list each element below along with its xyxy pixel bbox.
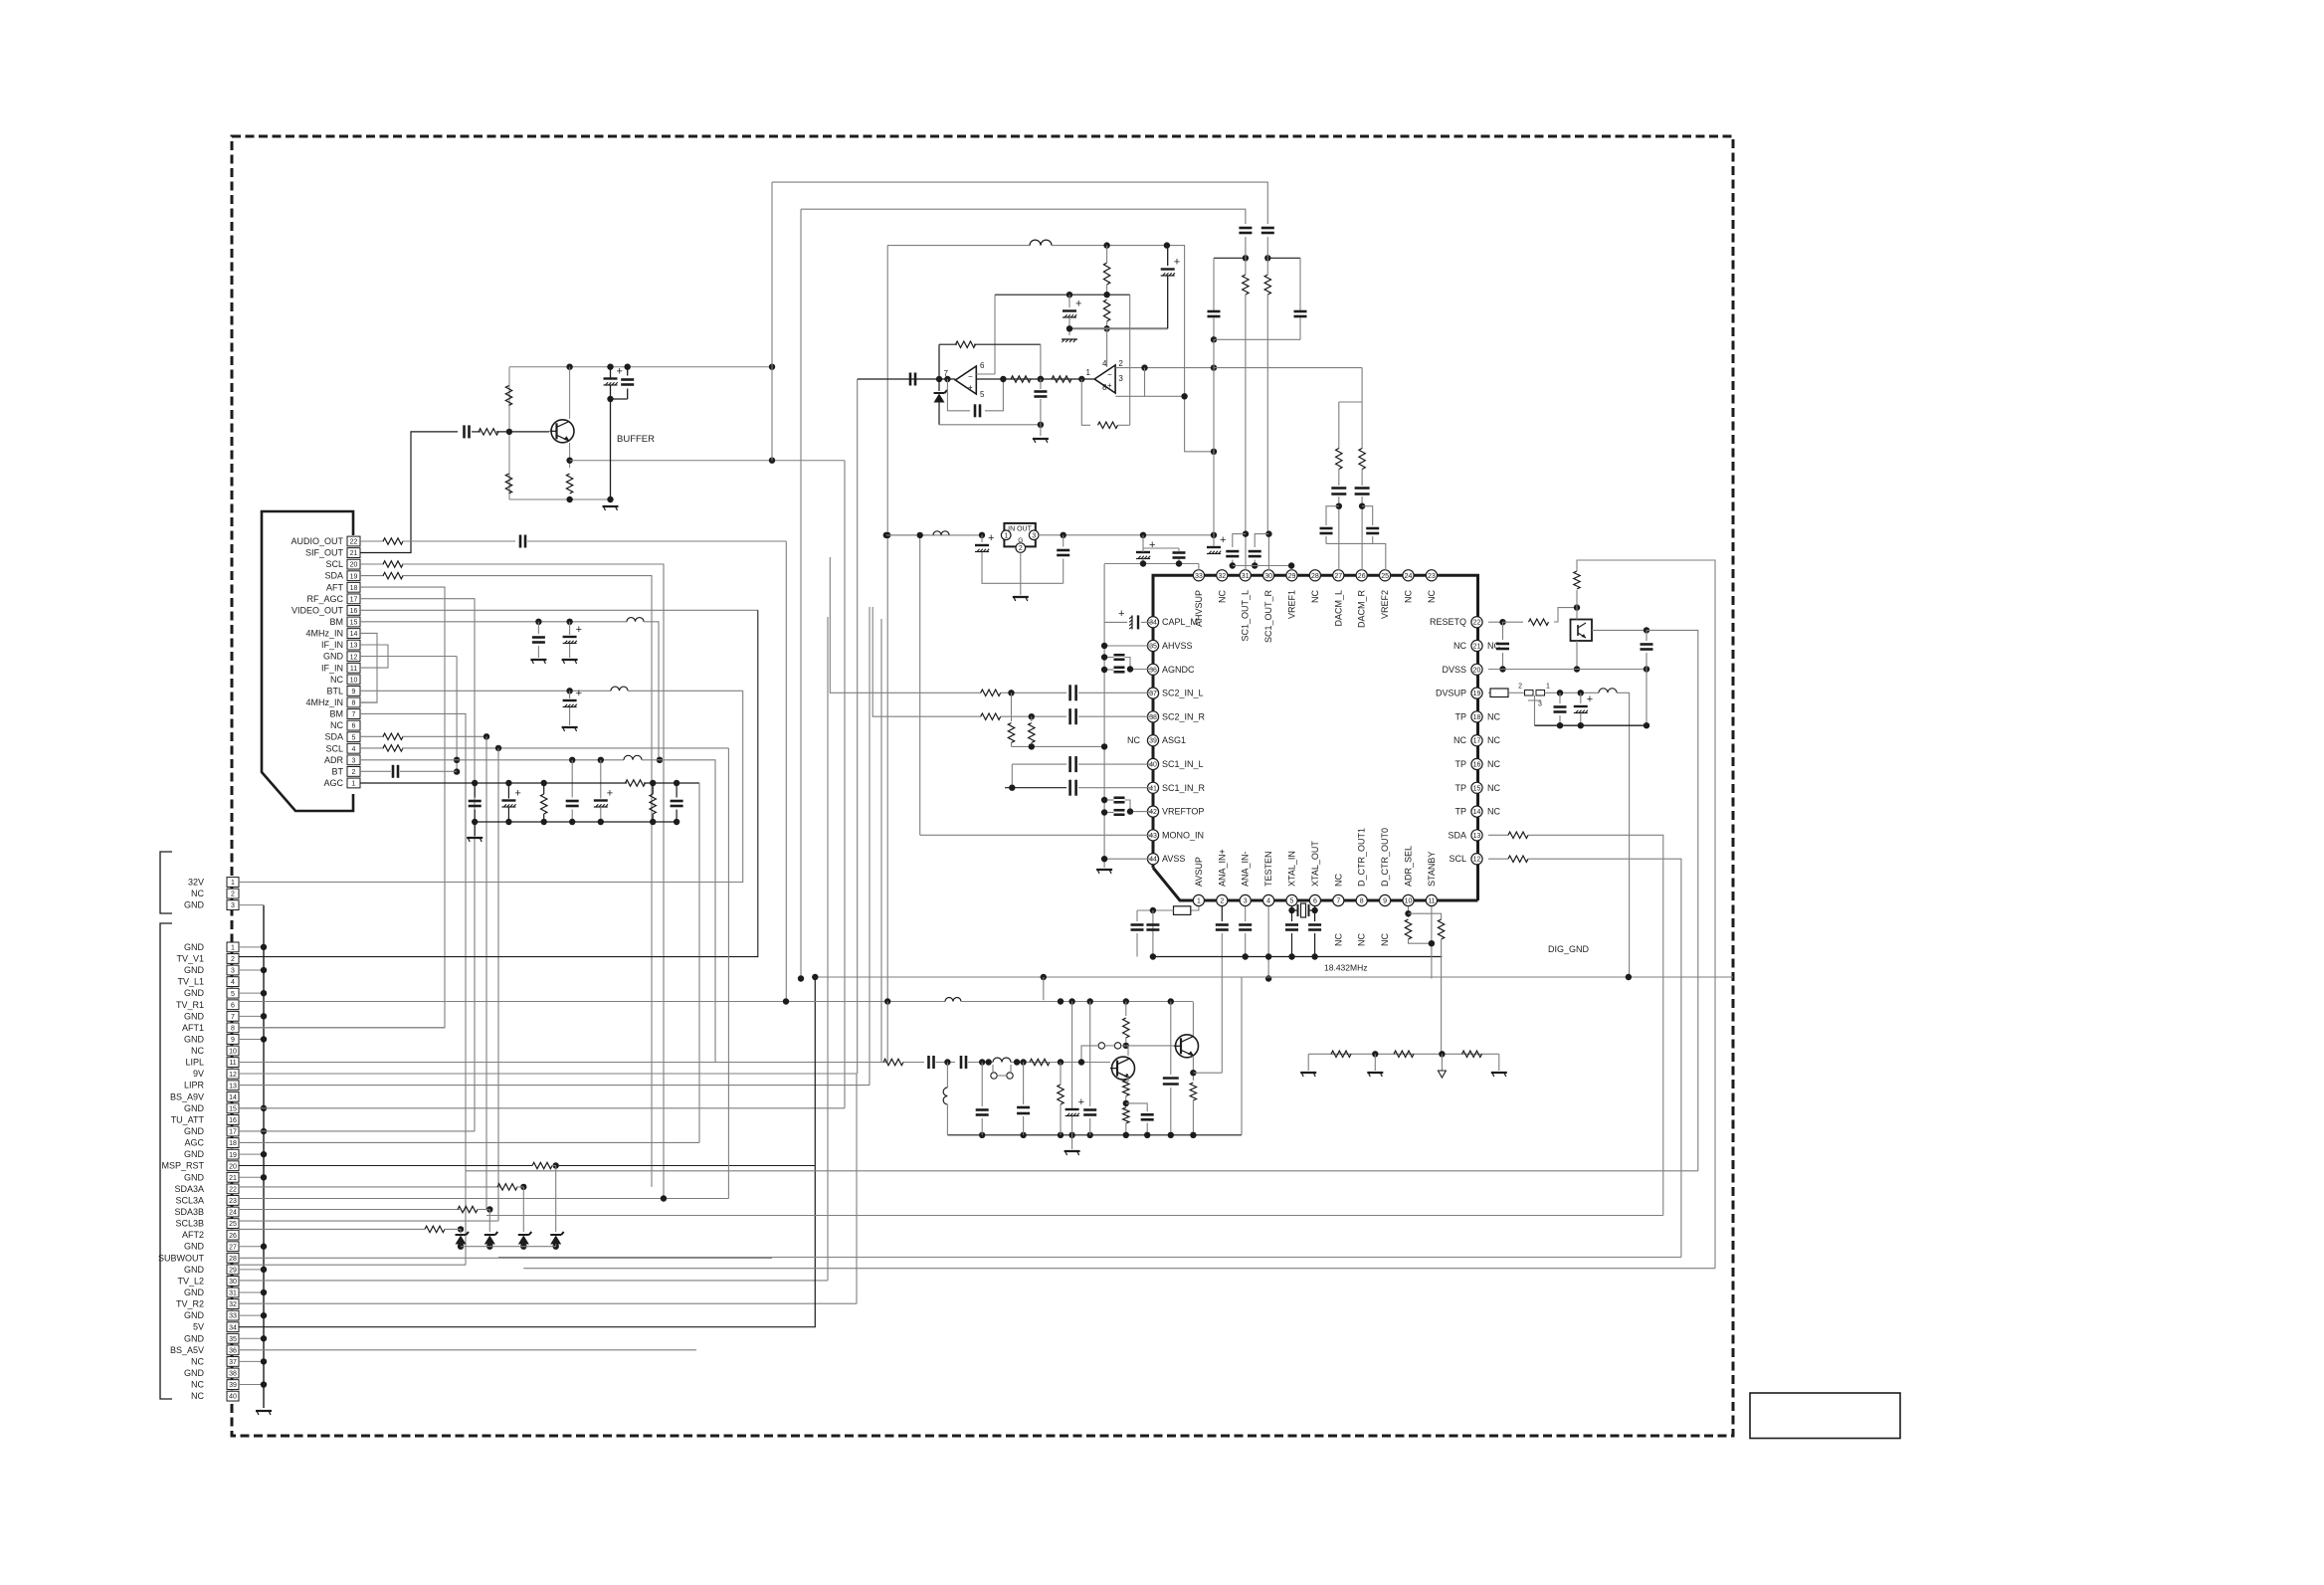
svg-text:4MHz_IN: 4MHz_IN xyxy=(305,629,343,639)
svg-text:GND: GND xyxy=(184,965,205,975)
svg-text:36: 36 xyxy=(1149,667,1157,674)
svg-text:AVSUP: AVSUP xyxy=(1194,857,1204,887)
svg-text:NC: NC xyxy=(191,1046,204,1056)
svg-text:9: 9 xyxy=(231,1037,235,1044)
svg-text:4: 4 xyxy=(231,979,235,986)
svg-text:GND: GND xyxy=(184,1149,205,1159)
svg-text:SC1_OUT_L: SC1_OUT_L xyxy=(1241,590,1251,642)
svg-text:GND: GND xyxy=(184,900,205,910)
svg-text:30: 30 xyxy=(1264,573,1272,580)
svg-text:+: + xyxy=(1075,298,1081,310)
svg-text:15: 15 xyxy=(350,620,358,627)
svg-text:3: 3 xyxy=(1032,532,1036,539)
svg-text:TU_ATT: TU_ATT xyxy=(171,1114,205,1124)
svg-text:43: 43 xyxy=(1149,833,1157,840)
svg-text:AFT: AFT xyxy=(326,582,344,592)
svg-text:SIF_OUT: SIF_OUT xyxy=(305,548,344,558)
svg-text:42: 42 xyxy=(1149,809,1157,816)
svg-text:1: 1 xyxy=(231,945,235,952)
svg-text:VIDEO_OUT: VIDEO_OUT xyxy=(291,605,344,615)
svg-text:5: 5 xyxy=(980,390,985,399)
svg-text:3: 3 xyxy=(231,902,235,909)
svg-text:SCL: SCL xyxy=(325,559,343,569)
svg-text:AGNDC: AGNDC xyxy=(1162,665,1195,675)
svg-text:7: 7 xyxy=(352,711,356,718)
svg-text:15: 15 xyxy=(229,1105,237,1112)
svg-text:28: 28 xyxy=(1311,573,1319,580)
svg-text:32V: 32V xyxy=(188,878,204,888)
svg-text:GND: GND xyxy=(184,1265,205,1275)
svg-text:18.432MHz: 18.432MHz xyxy=(1324,963,1367,973)
svg-text:25: 25 xyxy=(229,1221,237,1228)
svg-text:TP: TP xyxy=(1454,807,1466,817)
svg-text:4: 4 xyxy=(1102,359,1107,368)
svg-text:2: 2 xyxy=(352,769,356,776)
svg-text:10: 10 xyxy=(229,1049,237,1056)
svg-text:MSP_RST: MSP_RST xyxy=(161,1161,204,1171)
svg-text:14: 14 xyxy=(1473,809,1481,816)
svg-text:7: 7 xyxy=(231,1014,235,1021)
svg-text:35: 35 xyxy=(1149,644,1157,651)
svg-text:SCL3B: SCL3B xyxy=(175,1219,204,1229)
svg-text:NC: NC xyxy=(1453,641,1466,651)
svg-text:2: 2 xyxy=(231,956,235,963)
svg-text:AFT2: AFT2 xyxy=(182,1230,204,1240)
svg-text:SDA: SDA xyxy=(1448,830,1466,840)
svg-text:11: 11 xyxy=(350,666,357,673)
svg-text:NC: NC xyxy=(191,1356,204,1366)
svg-text:+: + xyxy=(514,788,520,800)
svg-text:40: 40 xyxy=(1149,762,1157,769)
svg-text:16: 16 xyxy=(229,1117,237,1124)
svg-text:TP: TP xyxy=(1454,783,1466,793)
svg-text:3: 3 xyxy=(352,757,356,764)
svg-text:GND: GND xyxy=(184,1333,205,1343)
svg-text:9: 9 xyxy=(352,689,356,695)
svg-text:NC: NC xyxy=(1357,933,1367,946)
svg-text:SCL: SCL xyxy=(325,743,343,753)
svg-text:NC: NC xyxy=(1487,759,1500,769)
svg-text:LIPL: LIPL xyxy=(185,1058,204,1068)
svg-text:GND: GND xyxy=(184,1288,205,1297)
svg-text:24: 24 xyxy=(229,1210,237,1217)
svg-text:3: 3 xyxy=(1538,701,1542,708)
svg-text:SC2_IN_L: SC2_IN_L xyxy=(1162,689,1204,698)
svg-text:+: + xyxy=(1220,534,1226,546)
svg-text:1: 1 xyxy=(1546,684,1550,691)
svg-text:SC1_OUT_R: SC1_OUT_R xyxy=(1263,589,1273,643)
svg-text:5: 5 xyxy=(352,734,356,741)
svg-text:22: 22 xyxy=(229,1186,237,1193)
svg-text:BM: BM xyxy=(330,709,344,719)
svg-text:SC1_IN_L: SC1_IN_L xyxy=(1162,759,1204,769)
svg-text:44: 44 xyxy=(1149,857,1157,864)
svg-text:DVSS: DVSS xyxy=(1442,665,1466,675)
svg-text:5: 5 xyxy=(1290,898,1294,905)
svg-text:39: 39 xyxy=(1149,738,1157,745)
svg-text:9: 9 xyxy=(1383,898,1387,905)
svg-text:5V: 5V xyxy=(193,1322,204,1332)
svg-text:AGC: AGC xyxy=(184,1138,204,1148)
svg-text:6: 6 xyxy=(352,723,356,730)
svg-text:+: + xyxy=(1107,381,1112,390)
svg-text:TESTEN: TESTEN xyxy=(1263,851,1273,887)
svg-text:BT: BT xyxy=(331,766,343,776)
svg-text:+: + xyxy=(1118,608,1124,620)
svg-text:BS_A9V: BS_A9V xyxy=(170,1091,204,1101)
svg-text:10: 10 xyxy=(350,677,358,684)
svg-text:1: 1 xyxy=(1004,532,1008,539)
svg-text:20: 20 xyxy=(1473,667,1481,674)
svg-text:GND: GND xyxy=(184,1126,205,1136)
svg-text:33: 33 xyxy=(229,1313,237,1320)
svg-text:NC: NC xyxy=(191,1391,204,1401)
svg-text:TV_R1: TV_R1 xyxy=(176,1000,204,1010)
svg-text:14: 14 xyxy=(229,1094,237,1101)
svg-text:DACM_R: DACM_R xyxy=(1357,590,1367,629)
svg-text:VREF1: VREF1 xyxy=(1287,590,1297,619)
svg-text:+: + xyxy=(1149,539,1155,551)
svg-text:28: 28 xyxy=(229,1256,237,1263)
svg-text:NC: NC xyxy=(1310,590,1320,603)
svg-text:8: 8 xyxy=(231,1025,235,1032)
svg-text:13: 13 xyxy=(1473,833,1481,840)
svg-text:GND: GND xyxy=(184,1034,205,1044)
svg-text:17: 17 xyxy=(229,1129,237,1136)
svg-text:NC: NC xyxy=(1333,874,1343,887)
svg-text:17: 17 xyxy=(1473,738,1481,745)
svg-text:21: 21 xyxy=(1473,644,1481,651)
svg-text:18: 18 xyxy=(1473,714,1481,721)
svg-text:NC: NC xyxy=(1404,590,1414,603)
svg-text:20: 20 xyxy=(229,1163,237,1170)
svg-text:SUBWOUT: SUBWOUT xyxy=(158,1253,205,1263)
svg-text:27: 27 xyxy=(1334,573,1342,580)
svg-text:+: + xyxy=(1078,1096,1084,1108)
svg-text:NC: NC xyxy=(191,1380,204,1390)
svg-text:AVSS: AVSS xyxy=(1162,854,1185,864)
svg-text:+: + xyxy=(617,366,623,378)
svg-text:34: 34 xyxy=(229,1324,237,1331)
svg-text:4: 4 xyxy=(1266,898,1270,905)
svg-text:SDA3B: SDA3B xyxy=(174,1207,204,1217)
svg-text:+: + xyxy=(1174,257,1180,269)
svg-text:AFT1: AFT1 xyxy=(182,1023,204,1033)
svg-text:4MHz_IN: 4MHz_IN xyxy=(305,697,343,707)
svg-text:29: 29 xyxy=(1288,573,1296,580)
svg-text:+: + xyxy=(607,788,613,800)
svg-text:2: 2 xyxy=(1220,898,1224,905)
svg-text:15: 15 xyxy=(1473,785,1481,792)
svg-text:7: 7 xyxy=(1336,898,1340,905)
svg-text:MONO_IN: MONO_IN xyxy=(1162,830,1204,840)
svg-text:GND: GND xyxy=(184,1103,205,1113)
svg-text:1: 1 xyxy=(1197,898,1201,905)
svg-text:TP: TP xyxy=(1454,711,1466,721)
svg-text:17: 17 xyxy=(350,596,358,603)
svg-text:24: 24 xyxy=(1405,573,1413,580)
svg-text:TV_R2: TV_R2 xyxy=(176,1299,204,1309)
svg-text:38: 38 xyxy=(1149,714,1157,721)
svg-text:38: 38 xyxy=(229,1371,237,1378)
svg-text:GND: GND xyxy=(184,942,205,952)
svg-text:1: 1 xyxy=(1086,368,1091,377)
svg-text:3: 3 xyxy=(231,968,235,975)
svg-text:11: 11 xyxy=(229,1060,236,1067)
svg-text:GND: GND xyxy=(184,1242,205,1252)
svg-text:31: 31 xyxy=(1242,573,1250,580)
svg-text:NC: NC xyxy=(1333,933,1343,946)
svg-text:19: 19 xyxy=(1473,691,1481,697)
svg-text:GND: GND xyxy=(184,988,205,998)
svg-text:NC: NC xyxy=(1127,735,1140,745)
svg-text:SC1_IN_R: SC1_IN_R xyxy=(1162,783,1206,793)
svg-text:2: 2 xyxy=(1518,684,1522,691)
svg-text:ASG1: ASG1 xyxy=(1162,735,1186,745)
svg-text:GND: GND xyxy=(184,1310,205,1320)
svg-text:NC: NC xyxy=(1453,735,1466,745)
svg-text:ANA_IN-: ANA_IN- xyxy=(1241,851,1251,887)
svg-text:TV_L1: TV_L1 xyxy=(177,977,204,987)
svg-text:6: 6 xyxy=(231,1002,235,1009)
svg-text:37: 37 xyxy=(229,1359,237,1366)
svg-text:ADR_SEL: ADR_SEL xyxy=(1404,846,1414,887)
svg-text:23: 23 xyxy=(1428,573,1436,580)
svg-text:AUDIO_OUT: AUDIO_OUT xyxy=(290,536,343,546)
svg-text:NC: NC xyxy=(1487,711,1500,721)
svg-text:12: 12 xyxy=(1473,857,1481,864)
svg-text:CAPL_M: CAPL_M xyxy=(1162,617,1198,627)
svg-text:3: 3 xyxy=(1118,374,1123,383)
svg-text:22: 22 xyxy=(350,539,358,546)
svg-text:AGC: AGC xyxy=(323,778,343,788)
svg-text:+: + xyxy=(576,688,582,699)
svg-text:GND: GND xyxy=(184,1172,205,1182)
svg-text:37: 37 xyxy=(1149,691,1157,697)
svg-text:30: 30 xyxy=(229,1279,237,1286)
svg-text:26: 26 xyxy=(229,1233,237,1240)
svg-text:41: 41 xyxy=(1149,785,1157,792)
svg-text:36: 36 xyxy=(229,1347,237,1354)
svg-text:SCL: SCL xyxy=(1449,854,1466,864)
svg-text:NC: NC xyxy=(330,720,343,730)
svg-text:IF_IN: IF_IN xyxy=(321,663,343,673)
svg-text:VREFTOP: VREFTOP xyxy=(1162,807,1204,817)
svg-text:NC: NC xyxy=(1380,933,1390,946)
svg-text:G: G xyxy=(1018,537,1023,544)
svg-text:23: 23 xyxy=(229,1198,237,1205)
svg-text:10: 10 xyxy=(1405,898,1413,905)
svg-text:26: 26 xyxy=(1358,573,1366,580)
svg-text:SC2_IN_R: SC2_IN_R xyxy=(1162,711,1206,721)
svg-text:XTAL_OUT: XTAL_OUT xyxy=(1310,841,1320,887)
svg-text:NC: NC xyxy=(1487,735,1500,745)
svg-text:RESETQ: RESETQ xyxy=(1430,617,1466,627)
svg-text:NC: NC xyxy=(1217,590,1227,603)
svg-text:RF_AGC: RF_AGC xyxy=(306,594,343,604)
svg-text:SCL3A: SCL3A xyxy=(175,1195,204,1205)
svg-text:SDA3A: SDA3A xyxy=(174,1184,204,1194)
svg-text:NC: NC xyxy=(1487,807,1500,817)
svg-text:35: 35 xyxy=(229,1336,237,1343)
svg-text:2: 2 xyxy=(1019,545,1023,552)
svg-text:+: + xyxy=(1587,693,1593,705)
svg-text:33: 33 xyxy=(1195,573,1203,580)
svg-text:13: 13 xyxy=(229,1083,237,1090)
svg-text:XTAL_IN: XTAL_IN xyxy=(1287,851,1297,887)
svg-text:SDA: SDA xyxy=(324,732,343,742)
svg-text:1: 1 xyxy=(231,880,235,887)
svg-text:ANA_IN+: ANA_IN+ xyxy=(1217,849,1227,887)
svg-text:21: 21 xyxy=(350,550,358,557)
svg-text:25: 25 xyxy=(1381,573,1389,580)
svg-text:BTL: BTL xyxy=(326,686,343,695)
svg-text:21: 21 xyxy=(229,1175,237,1182)
svg-text:19: 19 xyxy=(229,1152,237,1159)
svg-text:8: 8 xyxy=(1360,898,1364,905)
svg-text:DIG_GND: DIG_GND xyxy=(1548,944,1590,954)
svg-text:6: 6 xyxy=(1313,898,1317,905)
svg-text:GND: GND xyxy=(184,1368,205,1378)
svg-text:2: 2 xyxy=(1118,359,1123,368)
svg-text:AHVSS: AHVSS xyxy=(1162,641,1193,651)
svg-text:IF_IN: IF_IN xyxy=(321,640,343,650)
svg-text:18: 18 xyxy=(350,585,358,592)
svg-text:NC: NC xyxy=(1487,783,1500,793)
svg-text:VREF2: VREF2 xyxy=(1380,590,1390,619)
svg-text:+: + xyxy=(988,532,994,544)
svg-text:11: 11 xyxy=(1428,898,1435,905)
svg-text:29: 29 xyxy=(229,1267,237,1274)
svg-text:22: 22 xyxy=(1473,620,1481,627)
svg-text:12: 12 xyxy=(229,1072,237,1079)
svg-text:−: − xyxy=(1107,370,1112,379)
svg-text:14: 14 xyxy=(350,631,358,638)
svg-text:16: 16 xyxy=(350,608,358,615)
svg-text:31: 31 xyxy=(229,1290,237,1297)
svg-text:32: 32 xyxy=(229,1301,237,1308)
svg-text:BUFFER: BUFFER xyxy=(617,434,655,445)
svg-text:STANBY: STANBY xyxy=(1427,852,1437,887)
svg-text:8: 8 xyxy=(352,700,356,707)
svg-text:27: 27 xyxy=(229,1244,237,1251)
svg-text:4: 4 xyxy=(352,746,356,753)
svg-text:6: 6 xyxy=(980,361,985,370)
svg-text:DVSUP: DVSUP xyxy=(1436,689,1466,698)
svg-text:SDA: SDA xyxy=(324,571,343,581)
svg-text:GND: GND xyxy=(184,1011,205,1021)
svg-text:20: 20 xyxy=(350,562,358,569)
svg-text:DACM_L: DACM_L xyxy=(1333,590,1343,627)
svg-text:−: − xyxy=(968,372,973,381)
svg-text:9V: 9V xyxy=(193,1069,204,1079)
svg-text:16: 16 xyxy=(1473,762,1481,769)
svg-text:+: + xyxy=(968,383,973,392)
svg-text:1: 1 xyxy=(352,781,356,788)
svg-text:3: 3 xyxy=(1244,898,1248,905)
svg-text:IN OUT: IN OUT xyxy=(1008,526,1032,533)
svg-text:12: 12 xyxy=(350,654,358,661)
svg-text:5: 5 xyxy=(231,991,235,998)
svg-text:D_CTR_OUT0: D_CTR_OUT0 xyxy=(1380,828,1390,887)
svg-text:GND: GND xyxy=(323,652,344,662)
svg-text:13: 13 xyxy=(350,643,358,650)
svg-text:TP: TP xyxy=(1454,759,1466,769)
svg-text:BM: BM xyxy=(330,617,344,627)
svg-text:NC: NC xyxy=(330,675,343,685)
svg-text:+: + xyxy=(576,624,582,636)
svg-text:TV_L2: TV_L2 xyxy=(177,1276,204,1286)
svg-text:TV_V1: TV_V1 xyxy=(176,953,204,963)
svg-text:19: 19 xyxy=(350,573,358,580)
svg-text:39: 39 xyxy=(229,1382,237,1389)
svg-text:18: 18 xyxy=(229,1140,237,1147)
svg-text:LIPR: LIPR xyxy=(184,1081,205,1090)
svg-text:40: 40 xyxy=(229,1394,237,1401)
svg-text:34: 34 xyxy=(1149,620,1157,627)
svg-text:ADR: ADR xyxy=(324,755,344,765)
svg-text:NC: NC xyxy=(1427,590,1437,603)
svg-text:BS_A5V: BS_A5V xyxy=(170,1345,204,1355)
svg-text:D_CTR_OUT1: D_CTR_OUT1 xyxy=(1357,828,1367,887)
svg-text:32: 32 xyxy=(1218,573,1226,580)
svg-text:NC: NC xyxy=(191,889,204,898)
svg-text:2: 2 xyxy=(231,892,235,898)
